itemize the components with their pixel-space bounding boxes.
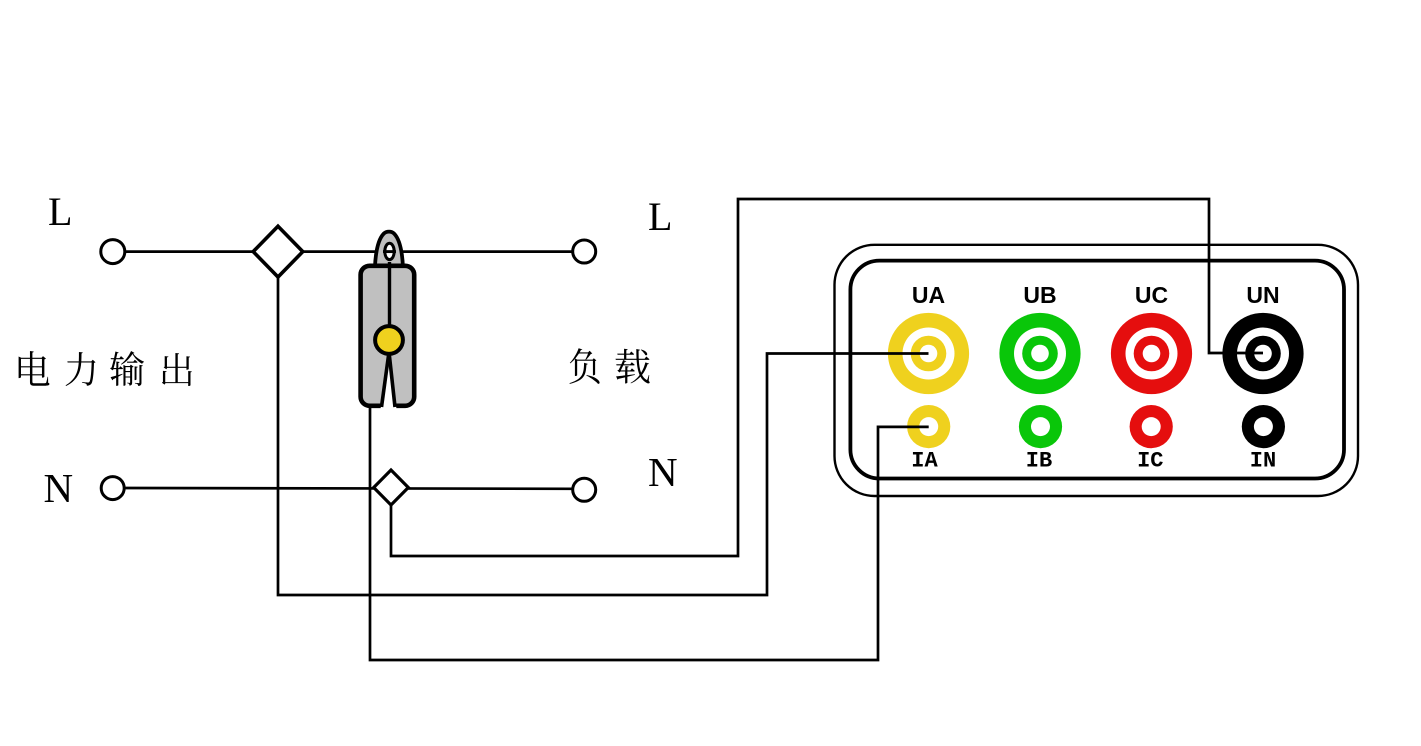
svg-text:UN: UN bbox=[1246, 282, 1279, 308]
text 负载 (load) bbox=[570, 348, 650, 384]
wire visible through hook hole bbox=[383, 250, 396, 253]
svg-text:UA: UA bbox=[912, 282, 945, 308]
svg-text:IN: IN bbox=[1250, 449, 1276, 474]
wire N line bbox=[126, 487, 572, 490]
svg-text:L: L bbox=[648, 194, 672, 239]
clamp hook bbox=[375, 258, 403, 268]
voltage jack UN bbox=[1222, 313, 1303, 394]
svg-text:IA: IA bbox=[911, 449, 938, 474]
current clamp assembly bbox=[361, 232, 415, 409]
svg-text:N: N bbox=[44, 465, 74, 511]
current jack IC bbox=[1130, 405, 1173, 448]
diamond sampling node on N line bbox=[374, 470, 409, 505]
current jack IN bbox=[1242, 405, 1285, 448]
voltage jack UC bbox=[1111, 313, 1192, 394]
voltage jack UB bbox=[999, 313, 1080, 394]
panel outer border bbox=[835, 245, 1359, 496]
svg-text:N: N bbox=[648, 449, 678, 495]
text 电力输出 (power output) bbox=[19, 351, 192, 386]
diamond sampling node on L line bbox=[253, 226, 303, 277]
clamp body bbox=[361, 266, 415, 406]
current jack IA bbox=[907, 405, 950, 448]
clamp jaw wedge bbox=[381, 352, 397, 409]
wire: current clamp to IA jack bbox=[370, 406, 929, 660]
terminal circle N load bbox=[573, 478, 596, 501]
wire L line bbox=[126, 250, 572, 253]
svg-text:UC: UC bbox=[1135, 282, 1168, 308]
svg-text:IC: IC bbox=[1137, 449, 1163, 474]
terminal circle L load bbox=[573, 240, 596, 263]
voltage jack UA bbox=[888, 313, 969, 394]
svg-text:IB: IB bbox=[1026, 449, 1052, 474]
current jack IB bbox=[1019, 405, 1062, 448]
clamp pivot (yellow dot) bbox=[375, 326, 403, 354]
svg-text:UB: UB bbox=[1023, 282, 1056, 308]
panel inner border bbox=[850, 261, 1344, 479]
terminal circle L power bbox=[101, 240, 125, 264]
clamp hook hole bbox=[385, 243, 394, 259]
wire: N sample diamond to UN jack bbox=[391, 199, 1263, 556]
svg-text:L: L bbox=[48, 189, 72, 234]
terminal circle N power bbox=[101, 477, 124, 500]
wire: L sample diamond to UA jack bbox=[278, 277, 929, 595]
clamp center wire bbox=[388, 262, 391, 335]
